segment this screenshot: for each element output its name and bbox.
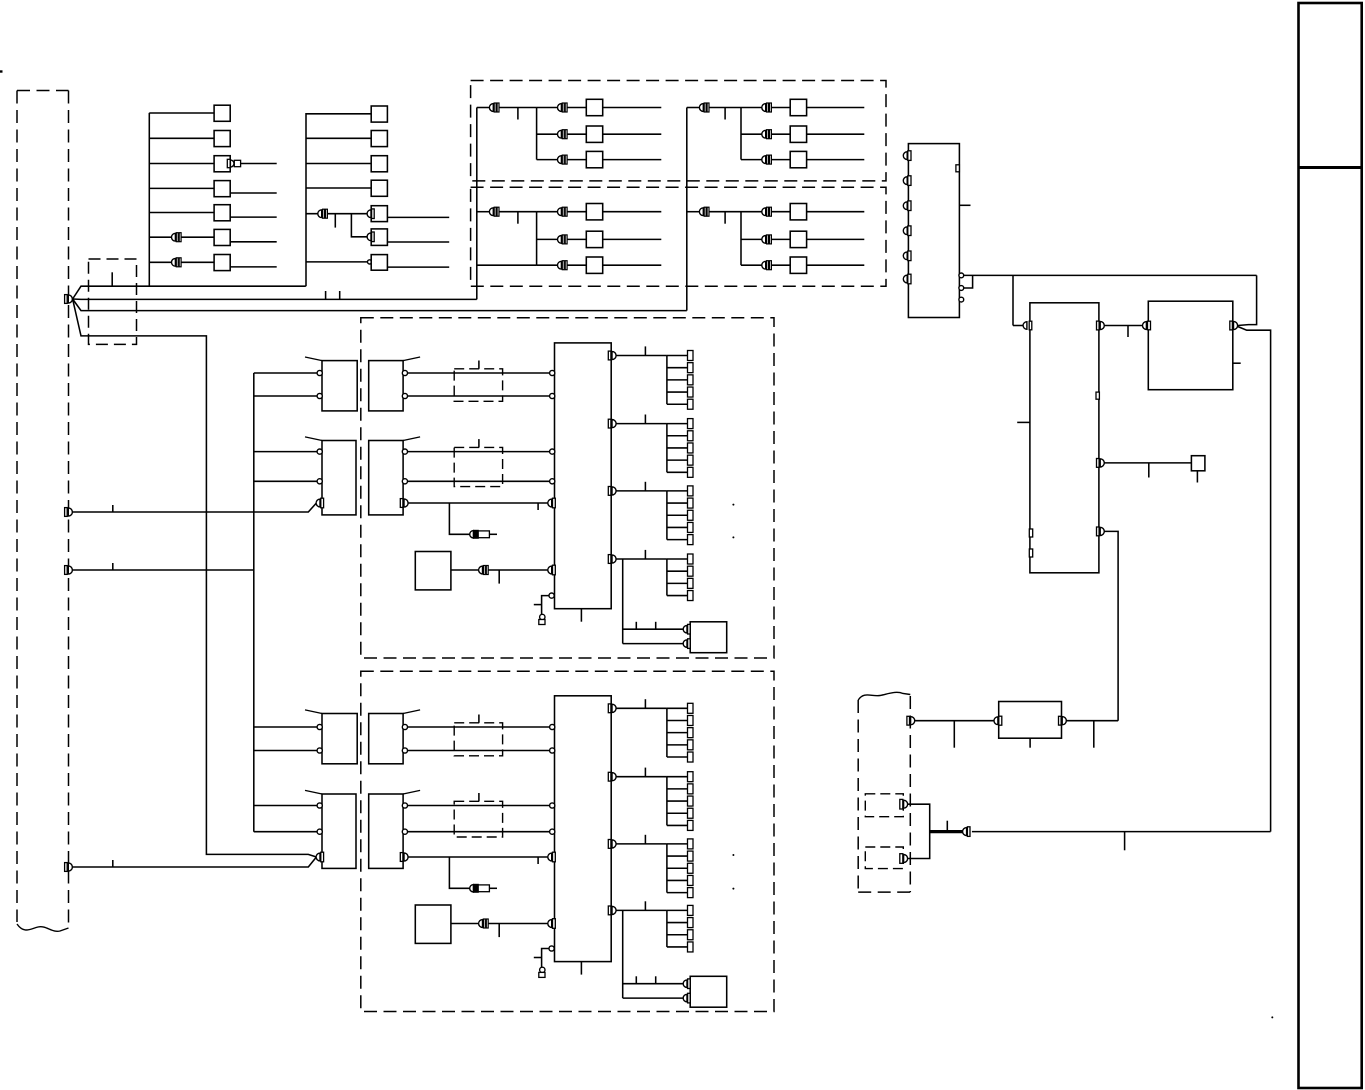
IC U12 in cn [1143, 321, 1151, 330]
block F1 cn1 [683, 624, 690, 634]
wire E1 g3 p3 [667, 514, 688, 516]
IC U10 pin7 [956, 165, 960, 172]
IC U11 out cn2 [1097, 459, 1105, 468]
connector CN25 [318, 209, 328, 218]
IC E1 in c3 [550, 449, 555, 454]
wire E2 g2 p1 [667, 776, 688, 778]
dot 11 [732, 536, 734, 538]
pin E1 g3-3 [688, 510, 694, 520]
block D2 [369, 794, 403, 868]
E1 g3 fan [666, 491, 668, 540]
wire C1-E 2 [408, 395, 555, 397]
block B1 flag [305, 437, 322, 441]
gate G26 [371, 229, 387, 246]
wire E1 g4 p1 [667, 558, 688, 560]
wire U10 c2 link [964, 275, 973, 288]
wire P1-2 stub [112, 505, 114, 512]
pin P1-1 [65, 295, 73, 304]
option box OP1 (dashed) [865, 794, 903, 817]
block C1 [369, 361, 403, 411]
shield box SB2 (dashed) [471, 187, 886, 286]
box K14 [214, 181, 230, 197]
wire U11 out2 stub [1148, 463, 1150, 478]
QUL junction [536, 108, 538, 160]
connector OP-cn [963, 827, 970, 837]
wire G1 stub [498, 570, 500, 584]
option box OP2 (dashed) [865, 847, 903, 869]
pin E1 g4-4 [688, 591, 694, 601]
pin E2 g3-5 [688, 888, 694, 898]
QUR junction [740, 108, 742, 160]
wire col2 row7 out [387, 266, 449, 268]
wire col2 row5 out [387, 216, 449, 218]
block D1 out1 [402, 449, 407, 454]
block A2 [322, 714, 357, 764]
block F1 [690, 622, 727, 653]
wire OP net stub [1124, 832, 1126, 851]
connector QUR-cn3 [762, 130, 772, 139]
box QUL-U1 [586, 99, 602, 115]
shield box SB1 (dashed) [471, 81, 886, 181]
pin E1 g1-4 [688, 387, 694, 397]
wire QLL r1b [567, 211, 586, 213]
IC U11 stub [1017, 421, 1030, 423]
wire F2 in1 stub b [655, 976, 657, 983]
block C1 out2 [402, 393, 407, 398]
wire P1-4 stub [112, 860, 114, 867]
connector CN17 [171, 258, 181, 267]
IC U11 pin a [1029, 529, 1032, 537]
wire E1 g3 stub [644, 482, 646, 491]
wire QLR r2 out [807, 238, 865, 240]
wire D2 cn branch [449, 857, 469, 888]
IC U10 [908, 144, 959, 318]
IC E1 [555, 343, 612, 609]
wire U12 out up [1238, 275, 1257, 325]
wire E2 g3 p2 [667, 855, 688, 857]
wire QLR r2b [772, 238, 791, 240]
pin E1 g1-3 [688, 375, 694, 385]
connector G1-cn [479, 566, 489, 575]
wire col1 row4 [149, 187, 214, 189]
crystal X1 [539, 614, 545, 624]
pin E1 g3-4 [688, 522, 694, 532]
QLR junction [740, 212, 742, 266]
wire col1 row4 out [230, 192, 277, 194]
wire E1 g2 p2 [667, 435, 688, 437]
pin E1 g2-2 [688, 431, 694, 441]
pin E2 g3-1 [688, 839, 694, 849]
wire col2 row7 [306, 261, 368, 263]
wire P1-3 stub [112, 563, 114, 570]
column1 bus [148, 113, 150, 286]
IC E2 cn1 [548, 852, 556, 862]
E2 g4 fan [666, 910, 668, 947]
IC E2 cn2 [548, 919, 556, 929]
wire E2 g3 stub [644, 835, 646, 844]
speck [1271, 1016, 1273, 1018]
wire E2 g1 p3 [667, 732, 688, 734]
gate G25 [371, 206, 387, 222]
block G2 [415, 905, 451, 943]
wire col2 row3 [306, 163, 371, 165]
connector panel torn edge [17, 924, 69, 931]
wire E2 g4 [616, 909, 667, 911]
pin E1 g1-2 [688, 363, 694, 373]
IC E1 in c1 [550, 370, 555, 375]
wire E2 g2 p5 [667, 824, 688, 826]
pin E2 g2-3 [688, 796, 694, 806]
pin E2 g1-2 [688, 715, 694, 725]
wire E1 g2 p4 [667, 459, 688, 461]
wire E2 g3 p1 [667, 843, 688, 845]
wire F1 in1 stub b [655, 622, 657, 629]
wire QUR r2 out [807, 133, 865, 135]
pin E1 g2-5 [688, 467, 694, 477]
block A1 [322, 361, 357, 411]
E2 g3 fan [666, 844, 668, 893]
wire QUL r3 out [603, 159, 662, 161]
wire QLR r2 [741, 238, 762, 240]
wire E1 g4 stub [644, 550, 646, 559]
wire E1 g1 p2 [667, 367, 688, 369]
pin E1 g4-3 [688, 578, 694, 588]
block C2 flag [403, 710, 420, 714]
wire E2 xtal stub [534, 957, 542, 959]
block B2 cn [316, 852, 324, 862]
IC E2 in c2 [550, 748, 555, 753]
wire bus-B1a [254, 451, 317, 453]
IC E2 out cn4 [608, 906, 616, 915]
IC E1 out cn4 [608, 555, 616, 564]
wire col2 row5 [306, 213, 368, 215]
wire bus-B1b [254, 480, 317, 482]
wire net-c (to right quad bus) [73, 299, 687, 311]
wire U11-U12 [1105, 325, 1144, 327]
wire OP join (thick) [930, 830, 963, 833]
wire F1 drop [622, 559, 624, 644]
wire G2 stub [498, 924, 500, 938]
pin E1 g1-5 [688, 399, 694, 409]
wire bus-B2b [254, 831, 317, 833]
wire QLR r1b [772, 211, 791, 213]
sheet frame divider [1299, 166, 1363, 169]
box QLL-U2 [586, 231, 602, 247]
wire QUR r2 [741, 133, 762, 135]
IC E2 in c1 [550, 724, 555, 729]
crystal X2 [539, 967, 545, 977]
block A1 flag [305, 357, 322, 361]
gate G25 cn [367, 209, 374, 219]
wire P2-BUF stub [953, 721, 955, 748]
wire E2 g1 p1 [667, 707, 688, 709]
wire bus-B2a [254, 805, 317, 807]
plug CN13a [227, 159, 240, 167]
wire bus-A2b [254, 750, 317, 752]
wire QLL r1 out [603, 211, 662, 213]
QLL r1 stub [517, 212, 519, 224]
buffer BUF stub [1029, 738, 1031, 748]
block D1 out2 [402, 479, 407, 484]
wire QLL r3 bus [477, 264, 537, 266]
wire col1 row5 [149, 212, 214, 214]
quad bus right [686, 108, 688, 311]
IC U10 out c3 [959, 297, 964, 302]
connector CN16 [171, 233, 181, 242]
connector panel P1 (dashed) [17, 91, 69, 928]
sheet border frame [1299, 3, 1362, 1088]
wire E1 g1 p1 [667, 355, 688, 357]
IC U10 out c1 [959, 273, 964, 278]
box K16 [214, 229, 230, 245]
box K11 [214, 105, 230, 121]
connector panel P2 torn edge [858, 692, 910, 700]
block D2 out1 [402, 803, 407, 808]
box J1 stub [1196, 471, 1198, 483]
block D1 out cn [400, 499, 408, 508]
filter FL11 (dashed) [454, 369, 502, 402]
wire E2 g4 stub [644, 901, 646, 910]
wire D1 cn stub [537, 503, 539, 510]
pin E2 g4-1 [688, 905, 694, 915]
box QLR-U1 [790, 204, 806, 220]
block B1 in2 [317, 479, 322, 484]
block B2 in2 [317, 829, 322, 834]
block C2 [369, 714, 403, 764]
filter FL21 stub [478, 439, 480, 447]
wire E1 g1 p4 [667, 391, 688, 393]
wire E2 g4 p4 [667, 946, 688, 948]
wire E1 g1 [616, 355, 667, 357]
wire F2 drop [622, 910, 624, 998]
wire QUL r3 [537, 159, 558, 161]
pin E2 g4-3 [688, 930, 694, 940]
wire QLL r3b [567, 264, 586, 266]
wire E1 xtal [542, 596, 549, 615]
module box 1 (dashed) [361, 318, 774, 658]
wire QLR r1 [741, 211, 762, 213]
filter FL22 stub [478, 793, 480, 801]
wire E2 g1 p4 [667, 744, 688, 746]
block A2 in2 [317, 748, 322, 753]
wire col1 row6 [149, 236, 214, 238]
wire E2 g1 stub [644, 699, 646, 708]
IC E2 in c4 [550, 829, 555, 834]
wire QLR r1 mid [709, 211, 741, 213]
pin E2 g3-3 [688, 863, 694, 873]
wire E1 g4 [616, 558, 667, 560]
buffer BUF [999, 702, 1062, 739]
wire QUR r3 out [807, 159, 865, 161]
E1 g4 fan [666, 559, 668, 596]
block G1 [415, 552, 451, 590]
wire QUR r1 out [807, 107, 865, 109]
buffer BUF out cn [1059, 716, 1067, 725]
wire E1 g3 p4 [667, 526, 688, 528]
filter FL12 (dashed) [454, 723, 502, 756]
wire bus-A1b [254, 395, 317, 397]
wire QLL r3 [537, 264, 558, 266]
drive bus [253, 373, 255, 832]
block B1 cn [316, 498, 324, 508]
QLR r1 stub [724, 212, 726, 224]
wire OP stub [946, 821, 948, 832]
block D2 out2 [402, 829, 407, 834]
IC E1 cn2 [548, 565, 556, 575]
IC E2 in c5 [549, 946, 554, 951]
wire QUR r1 in [687, 107, 700, 109]
wire bus-A1a [254, 372, 317, 374]
connector QUL-cn1 [489, 103, 499, 112]
wire col1 row3 [149, 163, 214, 165]
wire E1 g3 p5 [667, 539, 688, 541]
connector QLL-cn2 [558, 207, 568, 216]
QUR r1 stub [724, 108, 726, 120]
IC E2 out cn1 [608, 704, 616, 713]
connector QUL-cn3 [558, 130, 568, 139]
block B1 in1 [317, 449, 322, 454]
IC U10 pin6 [903, 274, 911, 284]
E1 g1 fan [666, 356, 668, 405]
block D2 flag [403, 790, 420, 794]
wire E2 g2 stub [644, 768, 646, 777]
wire QUL r1 out [603, 107, 662, 109]
wire D2 cn to E [408, 856, 547, 858]
wire E2 g2 p4 [667, 812, 688, 814]
wire E1 g2 p1 [667, 423, 688, 425]
net-b stub 1 [325, 291, 327, 299]
wire QLR r3b [772, 264, 791, 266]
wire G2-E [451, 923, 548, 925]
block B2 flag [305, 790, 322, 794]
IC E1 bottom stub [580, 609, 582, 622]
wire E2 g2 p3 [667, 800, 688, 802]
wire E1 g2 [616, 423, 667, 425]
IC E1 out cn1 [608, 351, 616, 360]
connector QUR-cn1 [699, 103, 709, 112]
column2 bus [305, 113, 307, 286]
box QUR-U1 [790, 99, 806, 115]
wire E1 g3 [616, 490, 667, 492]
wire P1-2 to B1 cn [73, 503, 317, 512]
wire OP1 out [908, 804, 930, 858]
wire col1 row7 [149, 261, 214, 263]
IC E1 in c5 [549, 593, 554, 598]
wire U11 out3 [1105, 531, 1119, 720]
block C2 out2 [402, 748, 407, 753]
pin E2 g1-4 [688, 740, 694, 750]
wire F2 in2 [623, 997, 684, 999]
wire E2 g3 [616, 843, 667, 845]
wire QLR r3 [741, 264, 762, 266]
IC U10 pin3 [903, 201, 911, 211]
box K17 [214, 255, 230, 271]
edge mark [0, 70, 3, 72]
wire D2 cn stub [537, 857, 539, 864]
connector QUR-cn2 [762, 103, 772, 112]
wire E1 g4 p3 [667, 582, 688, 584]
wire D1 cn branch [449, 503, 469, 534]
IC E1 cn1 [548, 498, 556, 508]
wire E1 g2 p5 [667, 471, 688, 473]
buffer BUF in cn [994, 716, 1002, 725]
pin E2 g3-2 [688, 851, 694, 861]
wire E2 g3 p5 [667, 892, 688, 894]
net-a stub [111, 272, 113, 286]
wire QLL r2 out [603, 238, 662, 240]
wire col2 row2 [306, 137, 371, 139]
wire E2 g1 p5 [667, 756, 688, 758]
wire QLL r2b [567, 238, 586, 240]
wire QLL r3 out [603, 264, 662, 266]
wire QUR r1b [772, 107, 791, 109]
connector QUR-cn4 [762, 155, 772, 164]
wire col2 row4 [306, 187, 371, 189]
QUL r1 stub [517, 108, 519, 120]
pin E1 g4-2 [688, 566, 694, 576]
IC U11 [1030, 303, 1099, 573]
pin E1 g4-1 [688, 554, 694, 564]
wire QLR r1 out [807, 211, 865, 213]
pin E2 g1-5 [688, 752, 694, 762]
wire col1 row7 out [230, 266, 277, 268]
wire E2 g4 p2 [667, 922, 688, 924]
wire E1 g1 stub [644, 346, 646, 355]
IC U11 in wire [1013, 325, 1023, 327]
wire E1 g1 p3 [667, 379, 688, 381]
bead FB2 [470, 884, 490, 892]
connector QLR-cn1 [699, 207, 709, 216]
box J1 [1191, 456, 1205, 471]
filter FL21 (dashed) [454, 447, 502, 486]
IC U10 stub [959, 204, 970, 206]
block C1 flag [403, 357, 420, 361]
pin P2-1 [907, 716, 915, 725]
quad bus left [476, 108, 478, 300]
IC U11 pin c [1096, 392, 1099, 399]
pin P1-3 [65, 566, 73, 575]
block D2 out cn [400, 853, 408, 862]
wire E1 xtal stub [534, 604, 542, 606]
wire QUL r1 [537, 107, 558, 109]
block A2 flag [305, 710, 322, 714]
block F2 cn2 [683, 993, 690, 1003]
connector QLL-cn4 [558, 261, 568, 270]
block A2 in1 [317, 724, 322, 729]
connector QUL-cn2 [558, 103, 568, 112]
box K12 [214, 131, 230, 147]
block C1 out1 [402, 370, 407, 375]
pin E2 g4-2 [688, 918, 694, 928]
QLL junction [536, 212, 538, 266]
wire BUF out [1067, 720, 1119, 722]
IC E1 out cn2 [608, 419, 616, 428]
connector QLL-cn3 [558, 235, 568, 244]
box K23 [371, 156, 387, 172]
wire QUR r1 [741, 107, 762, 109]
wire col2 row6 out [387, 241, 449, 243]
wire E2 g1 [616, 707, 667, 709]
wire F1 in1 [623, 628, 684, 630]
pin OP2 [900, 854, 908, 864]
gate G26 cn [367, 232, 374, 242]
IC U11 in cn [1023, 321, 1032, 330]
wire P1-3 to bus [73, 569, 254, 571]
wire E1 g4 p2 [667, 570, 688, 572]
pin E2 g1-3 [688, 728, 694, 738]
IC U10 pin5 [903, 251, 911, 261]
connector QLR-cn2 [762, 207, 772, 216]
